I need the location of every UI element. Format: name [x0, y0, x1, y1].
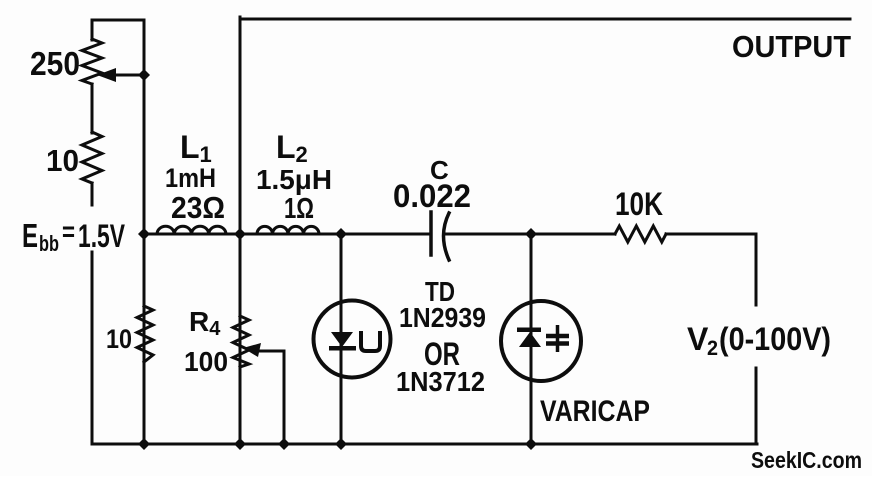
- wire line A below Ebb gap down to bottom rail: [91, 252, 94, 444]
- svg-text:100: 100: [184, 346, 228, 377]
- svg-text:10: 10: [46, 143, 79, 178]
- junction dot bottom R4 wiper: [278, 438, 290, 450]
- svg-text:10: 10: [106, 324, 132, 354]
- wire line D (tunnel diode branch): [340, 234, 343, 444]
- resistor 10K: [615, 226, 666, 242]
- svg-text:bb: bb: [39, 231, 59, 256]
- potentiometer R4: [233, 316, 249, 367]
- junction dot at 250 wiper: [138, 69, 150, 81]
- wire line A upper segment: [91, 20, 94, 40]
- wire line B vertical: [143, 20, 146, 444]
- resistor 10 upper: [82, 132, 102, 183]
- varicap capacitor mark vertical: [556, 325, 560, 352]
- svg-text:1.5V: 1.5V: [78, 218, 125, 254]
- svg-text:L1: L1: [180, 129, 212, 167]
- wire mid rail from Ebb node through coils to capacitor: [144, 233, 430, 236]
- varicap capacitor mark bars: [546, 336, 569, 344]
- svg-text:1.5μH: 1.5μH: [256, 164, 332, 195]
- svg-text:V: V: [687, 321, 709, 357]
- wire line A stub above Ebb gap: [91, 183, 94, 205]
- tunnel diode triangle: [331, 332, 353, 347]
- wire line E (varicap branch): [530, 234, 533, 444]
- svg-text:R4: R4: [189, 306, 221, 340]
- wire top OUTPUT rail: [240, 18, 850, 21]
- junction dot cap-varicap node: [525, 228, 537, 240]
- svg-text:L2: L2: [276, 129, 308, 167]
- wire line C vertical (output node): [239, 17, 242, 444]
- junction dot L1-L2 node: [234, 228, 246, 240]
- svg-text:10K: 10K: [615, 186, 663, 222]
- svg-text:1N3712: 1N3712: [396, 366, 485, 397]
- svg-text:23Ω: 23Ω: [171, 190, 225, 225]
- potentiometer 250: [82, 39, 102, 84]
- junction dot bottom varicap: [525, 438, 537, 450]
- svg-text:2: 2: [707, 337, 718, 360]
- capacitor C right plate (curved): [444, 213, 450, 260]
- varicap anode bar: [517, 328, 541, 333]
- svg-text:1Ω: 1Ω: [284, 193, 314, 225]
- svg-text:(0-100V): (0-100V): [719, 321, 831, 357]
- svg-text:SeekIC.com: SeekIC.com: [751, 447, 862, 473]
- arrowhead of R4 wiper: [243, 343, 261, 357]
- svg-text:VARICAP: VARICAP: [540, 395, 650, 428]
- capacitor C left plate: [429, 212, 433, 255]
- tunnel diode U-mark: [361, 331, 380, 351]
- wire line F upper segment: [755, 234, 758, 305]
- arrowhead of 250 wiper: [97, 68, 116, 82]
- svg-text:=: =: [62, 216, 75, 247]
- wire from 10K to right corner: [666, 233, 756, 236]
- resistor 10 lower (on line B): [137, 306, 153, 362]
- tunnel diode cathode bar: [329, 346, 356, 351]
- varicap circle D2: [501, 301, 581, 381]
- wire from capacitor to 10K: [444, 233, 615, 236]
- junction dot L2-TD node: [335, 228, 347, 240]
- inductor L2: [257, 226, 319, 234]
- junction dot bottom TD: [335, 438, 347, 450]
- wire top-left from battery top to line B: [92, 19, 144, 22]
- inductor L1: [157, 226, 226, 234]
- svg-text:OUTPUT: OUTPUT: [732, 29, 851, 64]
- svg-text:0.022: 0.022: [393, 178, 471, 214]
- svg-text:1mH: 1mH: [165, 163, 216, 193]
- junction dot bottom line C: [234, 438, 246, 450]
- varicap triangle: [519, 332, 541, 347]
- wire R4 wiper to bottom rail: [254, 351, 284, 444]
- svg-text:E: E: [22, 217, 38, 254]
- junction dot Ebb node: [138, 228, 150, 240]
- tunnel diode circle U1: [314, 301, 391, 378]
- svg-text:250: 250: [30, 45, 80, 82]
- wiper arrow of potentiometer 250: [113, 74, 144, 77]
- wire line A between 250 and 10: [91, 84, 94, 133]
- wire line F lower segment: [755, 368, 758, 444]
- svg-text:1N2939: 1N2939: [399, 302, 486, 333]
- wire bottom rail: [92, 443, 757, 446]
- junction dot bottom line B: [138, 438, 150, 450]
